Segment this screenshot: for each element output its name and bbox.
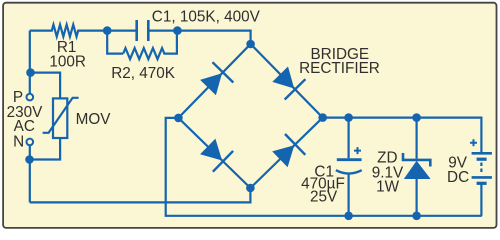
svg-text:R2, 470K: R2, 470K	[111, 65, 176, 82]
svg-text:DC: DC	[447, 169, 469, 186]
svg-text:MOV: MOV	[76, 111, 112, 128]
svg-text:100R: 100R	[49, 54, 86, 71]
svg-text:RECTIFIER: RECTIFIER	[299, 60, 380, 77]
svg-text:1W: 1W	[376, 178, 400, 195]
svg-text:25V: 25V	[310, 188, 338, 205]
svg-text:C1, 105K, 400V: C1, 105K, 400V	[152, 8, 261, 25]
svg-text:N: N	[13, 133, 24, 150]
